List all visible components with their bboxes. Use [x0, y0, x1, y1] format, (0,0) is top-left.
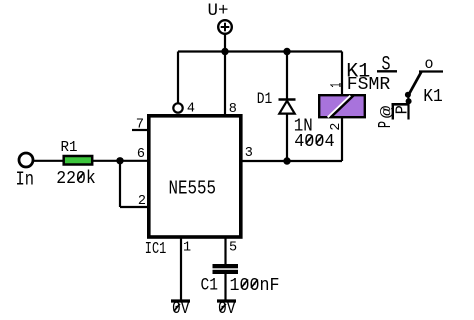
svg-text:1: 1	[183, 240, 191, 255]
wire rail to relay coil	[341, 52, 343, 96]
wire pin 5 to C1	[224, 239, 226, 265]
input terminal In	[19, 153, 33, 167]
wire R1 to junction to pin 6	[93, 160, 148, 162]
switch blade dot	[405, 92, 411, 98]
supply terminal U+	[218, 20, 232, 34]
svg-text:100nF: 100nF	[230, 275, 280, 296]
slashes on 0s of 4004	[306, 136, 313, 144]
switch pivot dot	[406, 98, 412, 104]
svg-text:FSMR: FSMR	[347, 75, 391, 95]
svg-text:P: P	[376, 121, 396, 128]
wire top rail	[178, 50, 342, 52]
svg-text:4004: 4004	[294, 131, 335, 152]
pin 7 stub	[132, 129, 148, 131]
wire pin 2 branch horizontal	[120, 206, 148, 208]
op IC1 NE555 box	[149, 116, 241, 237]
capacitor C1	[213, 264, 239, 268]
svg-text:R1: R1	[61, 140, 78, 156]
wire U+ to rail to pin 8	[224, 34, 226, 115]
junction dot rail/diode	[283, 48, 290, 55]
pin name box top	[392, 103, 410, 106]
wire relay coil to pin 3 line	[341, 118, 343, 162]
ground 0V under pin 1	[171, 299, 190, 302]
svg-text:D1: D1	[257, 90, 273, 108]
ground 0V under C1	[217, 299, 236, 302]
junction dot input/pin2 branch	[116, 157, 123, 164]
svg-text:IC1: IC1	[145, 239, 167, 258]
slashes on 0s of 100nF	[241, 280, 248, 288]
wire pin 2 branch vertical	[119, 161, 121, 207]
svg-text:P: P	[393, 105, 412, 114]
wire rail to diode cathode	[286, 52, 288, 100]
svg-text:C1: C1	[201, 276, 219, 296]
wire pin 3 output line	[241, 160, 342, 162]
switch pivot wire	[407, 95, 409, 102]
relay coil K1	[319, 95, 365, 117]
svg-text:In: In	[16, 169, 35, 191]
diode D1 cathode bar	[279, 98, 296, 101]
S underline	[377, 70, 397, 72]
switch common pin wire	[407, 101, 409, 119]
junction dot at U+/pin8/rail	[221, 48, 228, 55]
wire C1 to ground	[224, 274, 226, 300]
svg-text:7: 7	[136, 117, 144, 132]
svg-text:U+: U+	[208, 1, 229, 21]
pin 4 inversion circle	[173, 103, 182, 112]
slash on 0 of 220k	[77, 173, 84, 181]
wire pin 1 to ground	[180, 239, 182, 301]
switch O contact line	[419, 70, 443, 72]
wire In to R1	[33, 160, 63, 162]
svg-text:5: 5	[229, 240, 237, 255]
diode D1 triangle	[279, 101, 294, 114]
svg-text:NE555: NE555	[169, 178, 217, 200]
svg-text:220k: 220k	[56, 169, 96, 189]
svg-text:3: 3	[245, 146, 253, 161]
wire diode anode down	[286, 114, 288, 161]
pin name box left	[392, 104, 394, 119]
svg-text:S: S	[382, 54, 391, 77]
svg-text:O: O	[425, 57, 434, 72]
svg-text:1: 1	[328, 83, 346, 88]
wire rail to pin 4	[177, 52, 179, 104]
svg-text:@: @	[379, 106, 396, 119]
switch blade	[409, 72, 422, 96]
resistor R1	[64, 156, 92, 165]
junction dot diode/output	[283, 157, 290, 164]
svg-text:K1: K1	[423, 87, 443, 107]
